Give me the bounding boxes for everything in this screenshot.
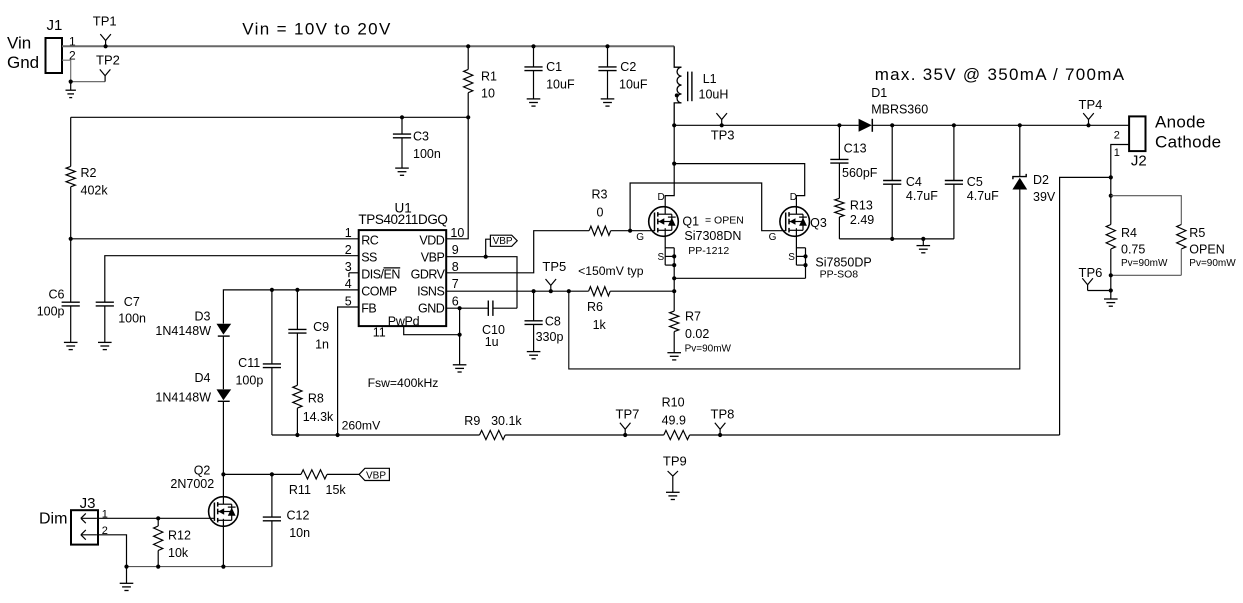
svg-text:D4: D4 [195,371,211,385]
ground at TP9 [666,492,680,499]
node VBP flag tap [484,255,488,259]
node FB junction [336,433,340,437]
wire R3 to Q1 gate [611,230,655,232]
svg-text:TP3: TP3 [711,128,735,143]
svg-text:C7: C7 [124,295,140,309]
ground at C1 [527,99,541,106]
resistor R4 [1106,225,1168,291]
wire Q1 drain [665,125,674,214]
svg-text:VDD: VDD [419,233,444,247]
wire J1 pin2 to ground [62,60,105,81]
capacitor C3 [393,117,441,168]
zener D2 39V [1012,125,1056,204]
svg-text:Cathode: Cathode [1155,133,1221,152]
node C9 tap [295,288,299,292]
svg-text:D: D [658,192,665,203]
resistor R3 [589,188,611,236]
svg-text:Dim: Dim [39,511,67,528]
node ground rail J3 [124,565,128,569]
ground at J3 [120,567,134,591]
wire gate loop to Q3 [630,183,786,231]
resistor R7 [670,278,732,354]
capacitor C13 [830,125,878,180]
svg-text:100n: 100n [413,147,441,161]
svg-text:R4: R4 [1121,226,1137,240]
node L1 bottom [672,123,676,127]
wire J3 pin1 to Q2 gate [97,517,215,519]
node LED ground [1109,288,1113,292]
capacitor C9 [288,290,329,352]
capacitor C8 [525,291,564,351]
pin 3 DIS/EN [345,260,401,281]
svg-text:R10: R10 [662,395,685,409]
svg-text:DIS/EN: DIS/EN [361,268,400,282]
net flag VBP [486,235,518,257]
wire Vin top rail [62,45,674,47]
node C1 top [531,44,535,48]
svg-text:0.02: 0.02 [685,327,709,341]
label Gnd [7,53,39,72]
label Cathode [1155,133,1221,152]
wire GND pin6 to C10 [446,307,488,309]
ground at C7 [98,342,112,349]
wire Q3 source block [796,228,807,278]
svg-text:J2: J2 [1131,153,1147,170]
node C8 tap [532,289,536,293]
pin 1 RC [345,226,379,247]
svg-text:Fsw=400kHz: Fsw=400kHz [368,376,439,390]
svg-text:R8: R8 [308,392,324,406]
node C4 top [890,123,894,127]
svg-text:4: 4 [345,277,352,291]
svg-text:402k: 402k [81,183,109,197]
pin 6 GND [418,294,459,315]
node sense join [1109,175,1113,179]
svg-text:2: 2 [1114,129,1120,141]
capacitor C1 [524,46,575,99]
diode D4 1N4148W [155,371,231,405]
pin 4 COMP [345,277,397,298]
svg-text:Vin = 10V to 20V: Vin = 10V to 20V [242,19,391,38]
svg-text:R3: R3 [592,188,608,202]
pin 5 FB [345,294,377,315]
wire R10 to sense column [690,434,1060,436]
svg-text:Pv=90mW: Pv=90mW [1189,258,1236,269]
resistor R10 [662,395,690,439]
wire J2 pin1 down [1111,145,1129,225]
wire bottom ground rail [127,566,272,568]
resistor R9 [464,414,522,440]
svg-text:4.7uF: 4.7uF [967,189,999,203]
pin 8 GDRV [411,260,459,281]
svg-text:10uH: 10uH [699,88,729,102]
node PwPd junction [458,333,462,337]
ground at C3 [395,168,409,175]
transistor Q1 Si7308DN [636,192,744,263]
svg-text:R9: R9 [464,414,480,428]
svg-text:RC: RC [361,233,379,247]
svg-text:C4: C4 [906,175,922,189]
svg-text:100p: 100p [235,374,263,388]
svg-text:= OPEN: = OPEN [705,215,744,227]
label Vin [7,34,31,53]
svg-text:G: G [636,232,644,243]
svg-text:30.1k: 30.1k [491,414,522,428]
svg-text:100n: 100n [118,311,146,325]
svg-text:R5: R5 [1189,226,1205,240]
svg-text:100p: 100p [37,305,65,319]
svg-text:Q3: Q3 [810,216,827,230]
node J1 ground junction [69,80,73,84]
wire FB rail [272,434,480,436]
node R4 R5 bottom join [1109,273,1113,277]
capacitor C2 [598,46,647,99]
node OVP tap [567,289,571,293]
node R8 bottom [295,433,299,437]
svg-text:TP4: TP4 [1079,97,1103,112]
svg-text:4.7uF: 4.7uF [906,189,938,203]
svg-text:C5: C5 [967,175,983,189]
svg-text:9: 9 [452,243,459,257]
svg-text:0: 0 [597,206,604,220]
wire COMP pin4 [223,290,358,324]
svg-text:J1: J1 [47,17,63,34]
svg-text:1u: 1u [485,335,499,349]
connector J2 [1114,116,1147,169]
svg-text:S: S [788,252,795,263]
svg-text:VBP: VBP [493,236,513,247]
wire source rail [674,277,805,279]
node output caps ground [921,237,925,241]
svg-text:D: D [790,192,797,203]
svg-text:330p: 330p [536,330,564,344]
ground at J1 [66,82,76,98]
svg-text:Pv=90mW: Pv=90mW [1121,258,1168,269]
node drain branch [672,162,676,166]
node C12 top [270,472,274,476]
wire VDD rail [71,116,469,118]
resistor R1 [464,46,497,117]
svg-text:R7: R7 [685,310,701,324]
wire J3 pin2 to ground rail [97,535,127,567]
svg-text:1: 1 [1114,147,1120,159]
pin 11 PwPd [373,314,420,339]
test point TP5 [542,259,566,293]
wire Q2 drain to circle [222,474,224,504]
svg-text:8: 8 [452,260,459,274]
label Fsw [368,376,439,390]
net flag VBP 2 [327,468,389,481]
test point TP9 [663,454,687,493]
svg-text:1: 1 [345,226,352,240]
wire switch node rail [674,124,858,126]
svg-text:J3: J3 [80,495,96,512]
svg-text:D1: D1 [871,86,887,100]
wire VBP pin9 [446,257,517,309]
svg-text:R11: R11 [289,483,311,497]
svg-text:PP-SO8: PP-SO8 [820,269,859,281]
svg-text:R1: R1 [481,69,497,83]
resistor R6 [587,287,610,332]
resistor R12 [154,518,191,566]
svg-text:C2: C2 [620,60,636,74]
svg-text:ISNS: ISNS [417,285,444,299]
svg-text:10: 10 [481,87,495,101]
connector J3 [71,495,108,545]
svg-text:Pv=90mW: Pv=90mW [685,343,732,354]
J3 arrow pin2 [81,530,97,540]
svg-text:R2: R2 [81,166,97,180]
svg-text:10n: 10n [289,526,310,540]
node C11 tap [270,288,274,292]
node R12 top [156,516,160,520]
transistor Q2 2N7002 [170,464,238,527]
svg-text:TP6: TP6 [1079,265,1103,280]
svg-text:VBP: VBP [366,471,386,482]
svg-text:Vin: Vin [7,34,31,53]
svg-text:1N4148W: 1N4148W [155,391,211,405]
svg-text:SS: SS [361,250,377,264]
ground at C2 [601,99,615,106]
inductor L1 [674,46,728,125]
op-amp U1 TPS40211DGQ body [358,201,447,327]
test point TP2 [96,52,120,81]
wire snubber ground rail [839,238,954,240]
node C4 bottom [890,237,894,241]
resistor R8 [293,333,334,435]
svg-text:10: 10 [450,226,464,240]
node R7 top [672,289,676,293]
svg-text:FB: FB [361,302,376,316]
svg-text:GND: GND [418,302,445,316]
diode D3 1N4148W [155,310,231,339]
svg-text:C13: C13 [844,141,867,155]
node C2 top [605,44,609,48]
test point TP6 [1079,265,1111,291]
capacitor C4 [883,125,938,239]
ground at C8 [527,352,541,359]
svg-text:C6: C6 [49,288,65,302]
svg-text:10uF: 10uF [546,77,575,91]
resistor R2 [66,117,108,302]
wire D4 to Q2 drain node [222,401,224,474]
pin 7 ISNS [417,277,459,298]
node D2 top [1018,123,1022,127]
svg-text:1n: 1n [315,338,329,352]
wire D3 to D4 [222,336,224,389]
wire Q2 source [222,519,224,567]
svg-text:Q2: Q2 [194,464,211,478]
wire R6 to source node [610,290,674,292]
label Vin = 10V to 20V [242,19,391,38]
svg-text:TP2: TP2 [96,52,120,67]
J3 arrow pin1 [81,513,97,523]
svg-text:TP1: TP1 [93,14,117,29]
svg-text:Si7308DN: Si7308DN [684,229,741,243]
capacitor C10 [482,301,517,349]
test point TP1 [93,14,117,47]
svg-text:10uF: 10uF [619,77,648,91]
node gate junction [628,229,632,233]
wire output rail [872,124,1129,126]
wire R5 bottom rail [1111,274,1182,276]
svg-text:PP-1212: PP-1212 [688,245,729,257]
svg-text:560pF: 560pF [842,166,878,180]
svg-text:2N7002: 2N7002 [170,477,214,491]
label max output [875,65,1126,84]
svg-text:C12: C12 [287,509,310,523]
wire Q1 source block [665,228,676,278]
pin 10 VDD [419,226,464,247]
svg-text:R13: R13 [850,199,873,213]
ground at R4 [1104,291,1118,307]
svg-text:1N4148W: 1N4148W [155,324,211,338]
svg-text:Gnd: Gnd [7,53,39,72]
svg-text:7: 7 [452,277,459,291]
test point TP4 [1079,97,1103,127]
wire FB pin5 [338,307,359,435]
svg-text:G: G [769,232,777,243]
svg-text:Si7850DP: Si7850DP [815,256,871,270]
node R1 top [466,44,470,48]
wire R5 top rail [1111,196,1182,225]
wire pin11 PwPd to ground node [404,308,460,365]
svg-text:max. 35V @ 350mA / 700mA: max. 35V @ 350mA / 700mA [875,65,1126,84]
svg-text:14.3k: 14.3k [303,410,334,424]
ground at C6 [64,342,78,349]
resistor R13 [835,163,874,239]
svg-text:D2: D2 [1033,173,1049,187]
resistor R11 [289,470,347,497]
label 150mV typ [578,264,644,278]
diode D1 MBRS360 [859,86,929,132]
svg-text:10k: 10k [168,546,189,560]
wire Q2 drain tap [223,473,301,475]
svg-text:6: 6 [452,294,459,308]
test point TP3 [711,113,735,142]
svg-text:260mV: 260mV [342,419,381,433]
svg-text:GDRV: GDRV [411,268,446,282]
wire OVP sense run [569,190,1020,369]
svg-text:TP9: TP9 [663,454,687,469]
node R5 top join [1109,194,1113,198]
test point TP7 [616,407,640,438]
svg-text:R12: R12 [168,529,191,543]
svg-text:Anode: Anode [1155,112,1206,131]
svg-text:OPEN: OPEN [1189,242,1224,256]
wire Q3 drain branch [674,164,805,214]
svg-text:39V: 39V [1033,190,1056,204]
label Anode [1155,112,1206,131]
svg-text:C3: C3 [413,130,429,144]
test point TP8 [711,407,735,438]
svg-text:MBRS360: MBRS360 [871,103,928,117]
node GND pin6 junction [458,306,462,310]
wire SS to U1 pin2 [105,256,359,303]
node R12 bottom [156,565,160,569]
svg-text:C11: C11 [238,356,260,370]
svg-text:1k: 1k [593,318,607,332]
transistor Q3 Si7850DP [769,192,872,281]
svg-text:R6: R6 [587,300,603,314]
svg-text:C9: C9 [313,320,329,334]
svg-text:TPS40211DGQ: TPS40211DGQ [358,212,447,227]
wire RC to U1 pin1 [71,238,359,240]
node RC junction [69,237,73,241]
label Dim [39,511,67,528]
svg-text:15k: 15k [326,483,347,497]
svg-text:VBP: VBP [421,250,445,264]
svg-text:3: 3 [345,260,352,274]
node Q2 drain [221,472,225,476]
svg-text:COMP: COMP [361,285,397,299]
ground at U1 [453,365,467,372]
node C13 tap [837,123,841,127]
svg-text:TP7: TP7 [616,407,640,422]
ground at R7 [667,353,681,360]
capacitor C6 [37,288,80,343]
resistor R5 [1177,225,1237,276]
svg-text:11: 11 [373,326,386,340]
capacitor C12 [263,474,310,566]
connector J1 [46,17,77,73]
svg-text:C1: C1 [546,60,562,74]
node Q2 source [221,565,225,569]
svg-text:5: 5 [345,294,352,308]
svg-text:0.75: 0.75 [1121,242,1145,256]
wire VDD pin10 to rail [446,117,468,239]
wire GDRV pin8 [446,231,589,273]
svg-text:TP8: TP8 [711,407,735,422]
node C3 top [400,115,404,119]
svg-text:49.9: 49.9 [662,413,686,427]
wire ISNS pin7 [446,290,588,292]
capacitor C7 [96,295,146,342]
node C5 top [952,123,956,127]
svg-text:<150mV typ: <150mV typ [578,264,644,278]
pin 2 SS [345,243,377,264]
svg-text:C8: C8 [545,314,561,328]
label 260mV [342,419,381,433]
pin 9 VBP [421,243,459,264]
svg-text:Q1: Q1 [682,215,699,229]
node R1 bottom [466,115,470,119]
node source rail [672,276,676,280]
capacitor C11 [235,290,281,435]
svg-text:D3: D3 [195,310,211,324]
node TP1 junction [104,44,108,48]
svg-text:TP5: TP5 [542,259,566,274]
svg-text:2.49: 2.49 [850,213,874,227]
wire sense column up [1060,177,1111,435]
svg-text:S: S [658,252,665,263]
capacitor C5 [945,125,999,239]
wire R9 to R10 [505,434,664,436]
ground at output caps [917,239,931,253]
svg-text:2: 2 [345,243,352,257]
svg-text:L1: L1 [703,72,717,86]
